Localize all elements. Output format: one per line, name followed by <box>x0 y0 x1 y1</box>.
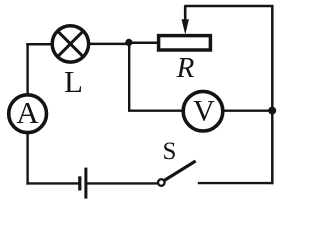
switch S lever <box>164 161 195 180</box>
switch S pivot <box>158 179 165 186</box>
voltmeter V1 <box>183 91 223 131</box>
wire <box>26 132 28 185</box>
wire <box>86 182 159 184</box>
lamp L <box>52 26 88 62</box>
svg-text:A: A <box>16 95 39 130</box>
wire <box>88 43 130 46</box>
node junction A <box>125 39 132 46</box>
wire <box>128 42 130 111</box>
wire <box>26 182 80 184</box>
node junction B <box>268 107 276 115</box>
svg-text:S: S <box>163 138 177 165</box>
svg-text:L: L <box>64 64 83 99</box>
wire <box>184 5 273 8</box>
svg-text:R: R <box>176 52 195 84</box>
wire <box>26 43 28 96</box>
battery B1 positive plate <box>84 168 87 199</box>
svg-text:V: V <box>193 95 215 128</box>
wire <box>271 6 274 184</box>
rheostat R body <box>159 36 211 50</box>
wire <box>26 43 53 46</box>
wire <box>198 182 274 184</box>
battery B1 negative plate <box>78 176 81 190</box>
wire <box>127 41 160 44</box>
rheostat R slider arrow <box>182 6 189 35</box>
ammeter A1 <box>9 95 47 133</box>
wire <box>128 109 186 111</box>
wire <box>220 109 273 111</box>
